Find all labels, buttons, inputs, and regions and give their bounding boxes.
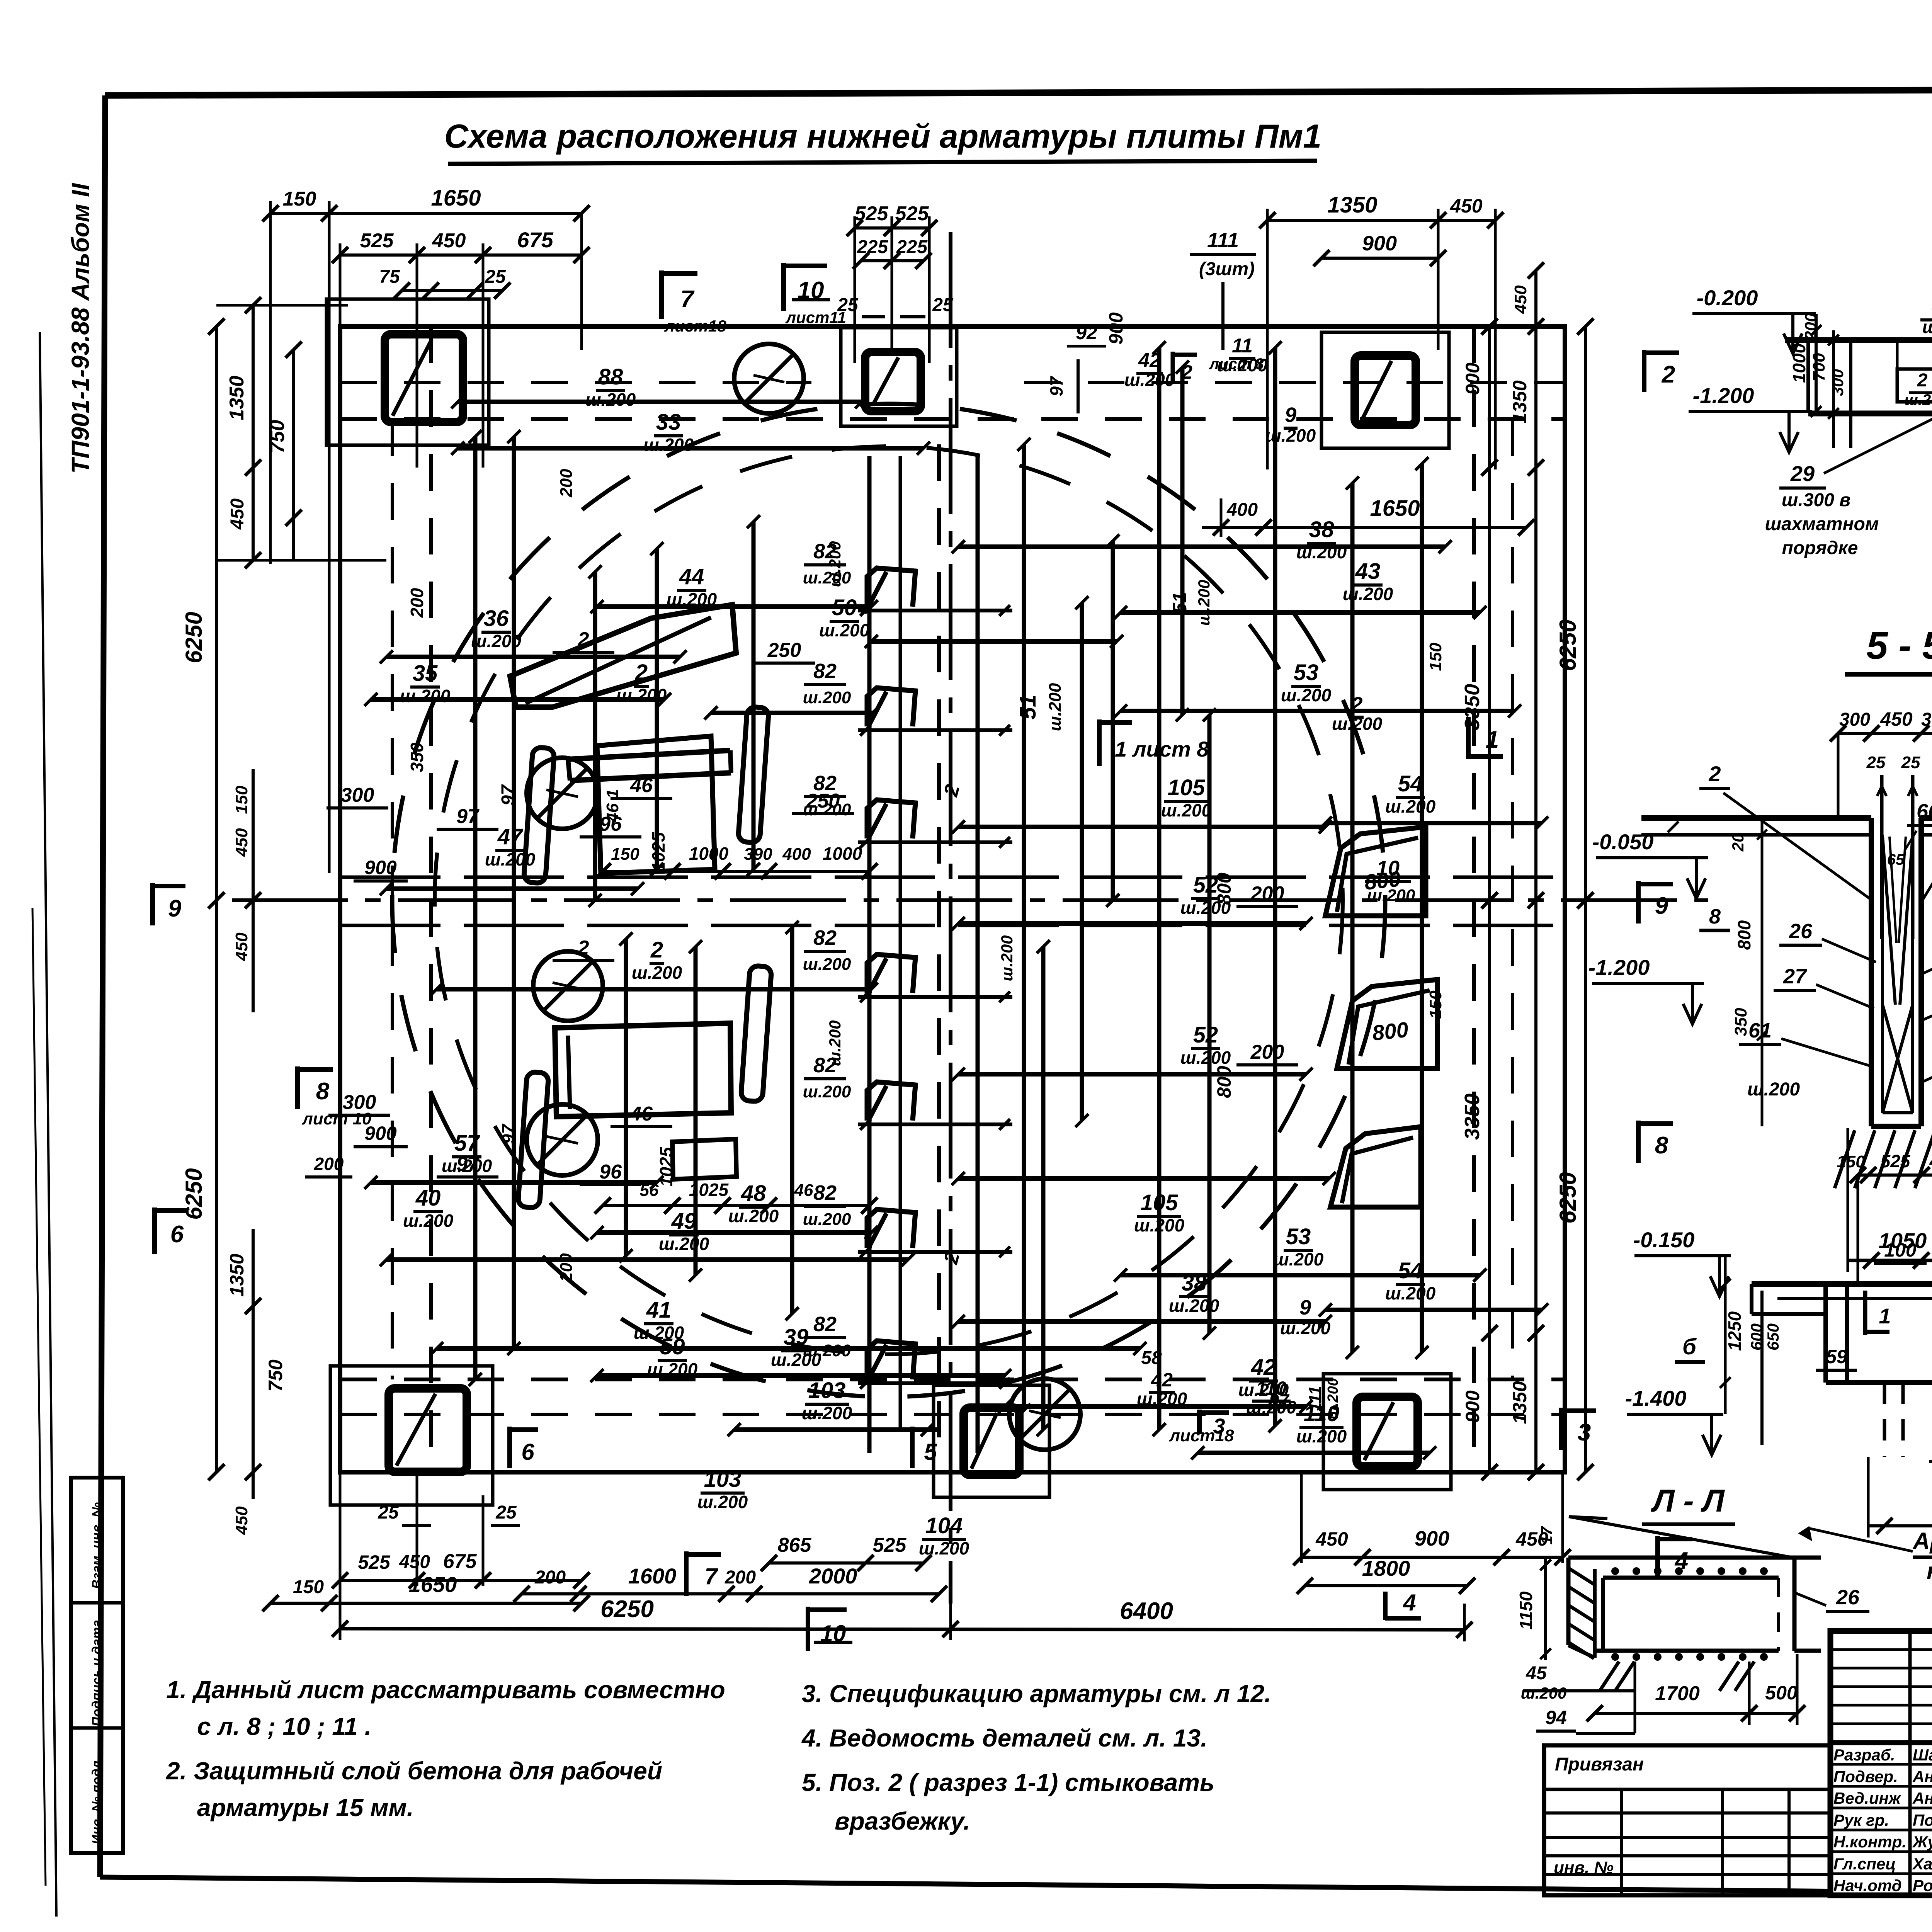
svg-text:450: 450 (232, 932, 251, 961)
svg-text:1150: 1150 (1516, 1591, 1536, 1629)
svg-text:225: 225 (857, 237, 888, 257)
svg-text:6250: 6250 (600, 1596, 654, 1622)
svg-text:ш.200: ш.200 (1520, 1684, 1566, 1702)
svg-text:525: 525 (873, 1534, 907, 1556)
svg-text:ш.200: ш.200 (1161, 800, 1212, 820)
svg-text:9: 9 (1655, 893, 1668, 919)
svg-text:105: 105 (1168, 775, 1206, 800)
svg-text:ш.200: ш.200 (826, 1020, 844, 1066)
svg-text:250: 250 (767, 639, 801, 662)
svg-text:ТП901-1-93.88 Альбом II: ТП901-1-93.88 Альбом II (66, 183, 94, 474)
svg-text:3. Спецификацию арматуры см.: 3. Спецификацию арматуры см. л 12. (802, 1680, 1271, 1708)
rebar line 54 (1325, 1308, 1542, 1312)
svg-text:150: 150 (232, 786, 251, 814)
svg-text:96: 96 (599, 813, 622, 835)
rebar line vertical (694, 947, 698, 1275)
svg-text:46: 46 (794, 1181, 813, 1200)
svg-text:150: 150 (611, 845, 639, 864)
signature rows (1830, 1763, 1932, 1766)
left chain 1350/750 (252, 305, 255, 560)
svg-text:51: 51 (1169, 592, 1190, 614)
svg-text:17: 17 (1537, 1526, 1556, 1544)
svg-text:450: 450 (1315, 1528, 1348, 1550)
svg-text:Поваляева: Поваляева (1913, 1811, 1932, 1829)
svg-text:38: 38 (1182, 1270, 1207, 1296)
svg-text:1600: 1600 (628, 1564, 677, 1588)
svg-text:9: 9 (168, 895, 182, 922)
svg-text:1350: 1350 (1509, 380, 1531, 423)
svg-text:ш.200: ш.200 (647, 1359, 698, 1379)
top dim chain 75/25 (402, 289, 502, 292)
rebar line 57 (371, 1180, 657, 1185)
lower-left quadrant chain mirror (603, 1204, 869, 1207)
svg-text:800: 800 (1213, 872, 1235, 905)
svg-text:525: 525 (360, 230, 394, 252)
svg-text:2: 2 (1181, 361, 1192, 383)
title block outer (1830, 1631, 1932, 1895)
svg-text:1350: 1350 (1327, 192, 1377, 218)
4-4 left dim verticals (1815, 314, 1818, 412)
top-right chain 900 (1321, 257, 1438, 260)
svg-text:ш.200: ш.200 (1904, 391, 1932, 408)
svg-text:525: 525 (358, 1551, 391, 1573)
svg-text:97: 97 (1046, 376, 1066, 396)
anchor block bottom-left (330, 1366, 493, 1505)
plan mid wall band (340, 876, 1565, 879)
svg-text:100: 100 (1884, 1239, 1917, 1261)
svg-text:лист18: лист18 (1169, 1426, 1234, 1445)
central hooks column with labels (867, 568, 915, 607)
svg-text:43: 43 (1355, 559, 1381, 584)
svg-text:97: 97 (456, 1153, 480, 1175)
svg-text:200: 200 (1250, 883, 1284, 905)
svg-text:150: 150 (293, 1577, 324, 1597)
svg-text:1: 1 (1879, 1304, 1891, 1328)
svg-text:42: 42 (1138, 349, 1161, 372)
L-L dots rows (1611, 1567, 1619, 1575)
svg-text:ш.300: ш.300 (1922, 317, 1932, 337)
svg-text:225: 225 (896, 237, 928, 257)
svg-text:Вед.инж: Вед.инж (1833, 1789, 1901, 1807)
svg-text:не показана: не показана (1927, 1558, 1932, 1584)
bottom chain 865/525 (769, 1561, 923, 1565)
5-5 top chain 300/450/300 (1838, 732, 1932, 735)
rebar line 42 (1005, 1404, 1306, 1409)
section flag 9 right (1636, 881, 1641, 923)
svg-text:1350: 1350 (1509, 1381, 1531, 1424)
svg-text:750: 750 (265, 1359, 286, 1392)
rebar line 110 (1198, 1451, 1430, 1455)
rebar line 52 (958, 921, 1306, 926)
top-center chain 525 525 (855, 226, 929, 230)
plan center axes (232, 898, 1708, 902)
wedge 800 top (1325, 827, 1426, 916)
svg-text:39: 39 (784, 1325, 809, 1350)
svg-text:900: 900 (1105, 312, 1127, 345)
rebar line 54 (1325, 821, 1542, 825)
svg-text:11: 11 (1232, 335, 1253, 357)
svg-text:ш.200: ш.200 (585, 389, 636, 410)
rebar line 2 (437, 987, 871, 992)
svg-text:900: 900 (364, 857, 397, 878)
svg-text:ш.200: ш.200 (1281, 685, 1332, 705)
flag 1 лист8 center (1097, 719, 1102, 766)
svg-text:525: 525 (1881, 1151, 1911, 1171)
svg-text:97: 97 (498, 784, 519, 806)
svg-text:ш.200: ш.200 (1195, 580, 1213, 626)
svg-text:Разраб.: Разраб. (1833, 1746, 1895, 1764)
section flag 8 right (1636, 1121, 1641, 1163)
svg-text:44: 44 (679, 564, 704, 589)
svg-text:ш.200: ш.200 (1296, 1426, 1347, 1446)
svg-text:-0.200: -0.200 (1697, 286, 1758, 310)
svg-text:б: б (1682, 1334, 1697, 1359)
rebar line vertical (655, 549, 659, 869)
svg-text:300: 300 (1828, 369, 1847, 396)
svg-text:1650: 1650 (1370, 496, 1420, 521)
svg-text:525: 525 (895, 202, 929, 225)
svg-text:800: 800 (1213, 1066, 1235, 1098)
rebar line 52 (958, 1072, 1306, 1077)
rebar line 53 (1121, 709, 1515, 713)
svg-text:450: 450 (399, 1552, 430, 1572)
svg-text:54: 54 (1398, 1258, 1423, 1283)
right vertical dim 6250 (1584, 327, 1587, 1472)
svg-text:26: 26 (1836, 1586, 1860, 1609)
svg-text:8: 8 (1655, 1132, 1668, 1159)
svg-text:9: 9 (1285, 403, 1296, 427)
svg-text:250: 250 (806, 790, 840, 812)
rebar line 35 (371, 697, 665, 702)
svg-text:450: 450 (227, 498, 248, 530)
svg-text:2000: 2000 (809, 1564, 857, 1588)
svg-text:6250: 6250 (1555, 1172, 1581, 1223)
section flag 3 right (1559, 1408, 1563, 1450)
rebar line vertical (1180, 367, 1185, 715)
svg-text:29: 29 (1790, 461, 1815, 486)
rebar line 50 (871, 639, 1117, 644)
svg-text:750: 750 (266, 420, 289, 454)
rebar line 53 (1121, 1273, 1480, 1277)
svg-text:ш.200: ш.200 (403, 1211, 454, 1231)
svg-text:ш.200: ш.200 (485, 849, 536, 869)
svg-text:400: 400 (782, 845, 811, 864)
svg-text:арматуры 15 мм.: арматуры 15 мм. (197, 1794, 414, 1821)
svg-text:ш.200: ш.200 (659, 1234, 709, 1254)
svg-text:ш.200: ш.200 (819, 620, 870, 640)
svg-text:Родионов: Родионов (1913, 1876, 1932, 1895)
6-6 slab body (1752, 1281, 1932, 1287)
6-6 inner bars (1777, 1297, 1932, 1300)
svg-text:1 лист 8: 1 лист 8 (1115, 737, 1209, 761)
svg-text:59: 59 (660, 1334, 685, 1359)
svg-text:200: 200 (557, 469, 576, 498)
section flag 6 left (152, 1207, 157, 1254)
svg-text:65: 65 (1887, 851, 1905, 868)
rebar line 41 (437, 1346, 1140, 1351)
svg-text:ш.200: ш.200 (1169, 1296, 1219, 1316)
rebar line 88 (458, 400, 862, 404)
svg-text:525: 525 (855, 202, 889, 225)
svg-text:1650: 1650 (431, 185, 481, 211)
svg-text:675: 675 (517, 228, 553, 252)
svg-text:350: 350 (407, 742, 427, 772)
L-L top slope leaders (1569, 1517, 1793, 1558)
svg-text:лист18: лист18 (664, 317, 726, 335)
svg-text:97: 97 (498, 1123, 518, 1144)
svg-text:ш.200: ш.200 (1367, 886, 1415, 905)
6-6 below dashed verticals (1883, 1383, 1886, 1457)
svg-text:66: 66 (1917, 800, 1932, 823)
svg-text:2: 2 (650, 937, 663, 963)
svg-text:1025: 1025 (689, 1180, 729, 1200)
trapezoid mid-left (597, 736, 715, 873)
svg-text:40: 40 (415, 1185, 441, 1211)
svg-text:41: 41 (646, 1298, 672, 1323)
svg-text:Подпись и дата: Подпись и дата (90, 1620, 104, 1726)
svg-text:200: 200 (314, 1154, 344, 1174)
svg-text:52: 52 (1193, 1022, 1218, 1048)
rebar line vertical (1350, 483, 1355, 1352)
svg-text:ш.200: ш.200 (1280, 1318, 1331, 1338)
svg-text:300: 300 (341, 784, 374, 806)
svg-text:47: 47 (497, 824, 524, 849)
svg-text:700: 700 (1810, 353, 1828, 381)
rebar line vertical (593, 572, 597, 900)
frame border left (100, 95, 105, 1877)
L-L under-slab hatch (1600, 1662, 1619, 1691)
svg-text:-1.200: -1.200 (1693, 383, 1754, 408)
rebar line vertical (790, 927, 794, 1314)
svg-text:96: 96 (599, 1161, 622, 1183)
svg-text:150: 150 (1837, 1152, 1865, 1171)
svg-text:46: 46 (630, 774, 653, 797)
L-L inner box (1603, 1576, 1779, 1580)
rebar line vertical (1207, 715, 1212, 1333)
round inserts (734, 344, 804, 413)
svg-text:Ханим: Ханим (1912, 1855, 1932, 1873)
svg-text:49: 49 (671, 1209, 697, 1234)
svg-text:ш.200: ш.200 (697, 1492, 748, 1512)
svg-text:53: 53 (1294, 660, 1319, 685)
svg-text:Шабалина: Шабалина (1913, 1746, 1932, 1764)
bottom flag 4 (1383, 1592, 1388, 1620)
section flag 3 inner (1197, 1410, 1202, 1434)
svg-text:ш.200: ш.200 (803, 1082, 851, 1101)
svg-text:Гл.спец: Гл.спец (1833, 1855, 1896, 1873)
svg-text:150: 150 (283, 188, 316, 210)
title block top grid rows (1830, 1648, 1932, 1651)
svg-text:-0.050: -0.050 (1592, 830, 1654, 854)
svg-text:ш.200: ш.200 (400, 686, 451, 706)
svg-text:42: 42 (1151, 1369, 1173, 1391)
svg-text:25: 25 (495, 1502, 517, 1523)
svg-text:Привязан: Привязан (1555, 1754, 1644, 1775)
L-L body (1568, 1556, 1821, 1560)
svg-text:111: 111 (1207, 229, 1239, 252)
svg-text:1025: 1025 (648, 832, 668, 872)
svg-text:600: 600 (1747, 1323, 1765, 1350)
svg-text:150: 150 (1426, 643, 1445, 671)
rebar line 39 (597, 1373, 1005, 1378)
svg-text:82: 82 (813, 926, 837, 949)
svg-text:5. Поз. 2 ( разрез 1-1) стык: 5. Поз. 2 ( разрез 1-1) стыковать (802, 1769, 1214, 1796)
title block verticals left part (1908, 1631, 1912, 1895)
rebar line 33 (458, 446, 923, 451)
svg-text:103: 103 (808, 1378, 846, 1403)
svg-text:5: 5 (924, 1439, 937, 1465)
rebar line vertical (1273, 348, 1277, 1426)
svg-text:2: 2 (1662, 361, 1675, 388)
svg-text:4: 4 (1403, 1590, 1416, 1616)
svg-text:450: 450 (1880, 708, 1913, 730)
svg-text:94: 94 (1545, 1707, 1567, 1728)
svg-text:33: 33 (656, 410, 681, 435)
rebar line vertical (1041, 947, 1046, 1430)
slim insert plates (738, 706, 769, 843)
rebar line 38 (958, 544, 1445, 549)
svg-text:ш.300 в: ш.300 в (1782, 490, 1850, 510)
sheet paper edge left (40, 332, 56, 1917)
left margin stamp boxes (71, 1478, 123, 1853)
svg-text:-0.150: -0.150 (1633, 1228, 1695, 1252)
svg-text:2: 2 (1917, 370, 1928, 391)
L-L left hatch (1570, 1569, 1594, 1584)
svg-text:Нач.отд: Нач.отд (1833, 1876, 1902, 1895)
rebar line vertical (1022, 444, 1026, 1410)
plan outer wall rectangle (340, 327, 1565, 1472)
svg-text:200: 200 (534, 1567, 566, 1588)
rebar line 43 (1121, 610, 1480, 615)
4-4 slab body (1785, 337, 1932, 343)
svg-text:6: 6 (521, 1439, 534, 1465)
svg-text:53: 53 (1286, 1224, 1311, 1249)
svg-text:200: 200 (724, 1567, 756, 1588)
svg-text:92: 92 (1076, 322, 1097, 344)
svg-text:1350: 1350 (226, 1253, 248, 1296)
svg-text:3350: 3350 (1461, 684, 1484, 730)
svg-text:ш.200: ш.200 (728, 1206, 779, 1226)
top-center chain 225 225 (861, 259, 923, 262)
svg-text:675: 675 (443, 1550, 477, 1573)
rebar line 49 (386, 1257, 908, 1262)
5-5 bottom marker 1 (1863, 1291, 1867, 1335)
svg-text:ш.200: ш.200 (826, 541, 844, 587)
svg-text:36: 36 (484, 606, 509, 631)
rebar line 105 (958, 825, 1325, 829)
svg-text:865: 865 (778, 1534, 812, 1556)
svg-text:88: 88 (598, 364, 623, 389)
svg-text:ш.200: ш.200 (1265, 425, 1316, 446)
svg-text:111: 111 (1306, 1386, 1325, 1412)
svg-text:1350: 1350 (226, 376, 248, 420)
svg-text:82: 82 (813, 1313, 837, 1336)
svg-text:ш.200: ш.200 (998, 935, 1016, 981)
top-right chain 1350/450 (1267, 219, 1495, 222)
left chain bottom 1350/750 (252, 1229, 255, 1499)
svg-text:450: 450 (1511, 285, 1530, 314)
6-6 top chain 150/525/450/675 (1858, 1173, 1932, 1177)
svg-text:800: 800 (1371, 1017, 1410, 1045)
top dim chain 525/450/675 (340, 253, 582, 257)
svg-text:5 - 5: 5 - 5 (1866, 624, 1932, 667)
rebar line vertical (624, 939, 628, 1256)
svg-text:Взам. инв. №: Взам. инв. № (90, 1502, 104, 1589)
svg-text:75: 75 (379, 267, 400, 287)
rebar line 38 (958, 1319, 1325, 1324)
rebar line 47 (386, 886, 638, 891)
svg-text:ш.200: ш.200 (1124, 370, 1175, 390)
svg-text:7: 7 (704, 1563, 718, 1589)
section flag 8 left (295, 1066, 300, 1109)
svg-text:Схема расположения нижней а: Схема расположения нижней арматуры плиты… (444, 118, 1322, 155)
rebar line vertical (1420, 464, 1424, 1352)
wedge 800 lower2 (1330, 1127, 1421, 1207)
big bent bar bottom-left (555, 1023, 731, 1117)
anchor block top-left (327, 299, 489, 445)
rebar line vertical (512, 437, 516, 1349)
frame border bottom (100, 1877, 1932, 1898)
rebar line 36 (386, 655, 680, 659)
left vertical dim 6250 upper (215, 327, 218, 1472)
svg-text:ш.200: ш.200 (1296, 542, 1347, 562)
svg-text:6400: 6400 (1120, 1598, 1173, 1624)
svg-text:25: 25 (1866, 753, 1886, 772)
svg-text:ш.200: ш.200 (1747, 1079, 1800, 1100)
svg-text:3: 3 (1578, 1419, 1591, 1446)
svg-text:4. Ведомость деталей см. л.: 4. Ведомость деталей см. л. 13. (801, 1724, 1207, 1752)
rebar line vertical (473, 437, 478, 1379)
big bent bar top-left (510, 605, 736, 707)
svg-text:ш.200: ш.200 (643, 435, 694, 455)
svg-text:200: 200 (407, 588, 427, 618)
svg-text:900: 900 (1462, 1390, 1483, 1423)
svg-text:-1.400: -1.400 (1625, 1386, 1687, 1410)
rebar line 105 (958, 1176, 1329, 1181)
svg-text:900: 900 (1415, 1527, 1449, 1550)
svg-text:ш.200: ш.200 (803, 955, 851, 974)
svg-text:25: 25 (378, 1502, 399, 1523)
section flag 2 right (1642, 350, 1646, 392)
svg-text:97: 97 (456, 805, 480, 828)
section flag 4 right (1655, 1536, 1660, 1578)
anchor block bottom-right (1323, 1374, 1451, 1490)
svg-text:56: 56 (640, 1181, 659, 1200)
svg-text:Арматура условно: Арматура условно (1912, 1528, 1932, 1554)
svg-text:500: 500 (1765, 1682, 1798, 1704)
svg-text:9: 9 (1299, 1296, 1311, 1319)
svg-text:450: 450 (232, 828, 251, 857)
svg-text:ш.200: ш.200 (1385, 796, 1436, 816)
rebar line 2 (711, 711, 872, 715)
svg-text:1700: 1700 (1655, 1682, 1700, 1705)
svg-text:Андреева: Андреева (1912, 1789, 1932, 1807)
svg-text:1: 1 (1486, 726, 1499, 753)
svg-text:Жула: Жула (1912, 1833, 1932, 1851)
svg-text:ш.200: ш.200 (1180, 1048, 1231, 1068)
svg-text:97: 97 (1269, 1390, 1290, 1410)
rebar line 44 (597, 604, 871, 609)
bottom chain 150/1650 (270, 1602, 582, 1605)
5-5 hatch below (1835, 1130, 1855, 1188)
svg-text:7: 7 (680, 286, 695, 313)
svg-text:8: 8 (1709, 905, 1721, 928)
anchor block top-right (1321, 332, 1449, 448)
svg-text:2. Защитный слой бетона для: 2. Защитный слой бетона для рабочей (166, 1757, 662, 1785)
bottom flag 7 (684, 1551, 689, 1596)
section flag 10 лист11 (781, 263, 786, 311)
svg-text:1000: 1000 (689, 844, 729, 864)
